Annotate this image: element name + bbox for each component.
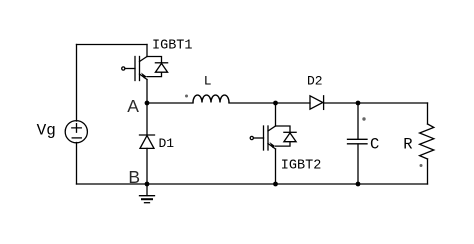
svg-text:A: A [127,96,139,116]
wire D2 to cap node [324,102,358,104]
svg-text:IGBT1: IGBT1 [152,39,193,54]
node junction dot IGBT2 top [273,101,278,106]
ground [140,184,155,203]
capacitor C [348,103,368,184]
transistor IGBT1 [122,45,168,104]
wire bottom rail [77,183,428,185]
svg-text:B: B [128,167,140,187]
svg-text:L: L [204,74,212,89]
svg-text:C: C [370,136,379,154]
wire node A to inductor [147,102,193,104]
inductor L [193,95,229,102]
node B junction dot [145,182,150,187]
transistor IGBT2 [250,103,296,184]
wire top rail from left rail to IGBT1 collector [77,44,148,46]
svg-text:R: R [403,135,412,153]
node junction dot C bottom [356,182,361,187]
node A junction dot [145,101,150,106]
wire left rail lower (Vg bottom to bottom rail) [76,143,78,185]
node junction dot IGBT2 bottom [273,182,278,187]
svg-text:D2: D2 [307,74,323,89]
wire inductor to D2 [229,102,310,104]
marker dot near L [185,95,188,98]
marker dot near R [420,164,423,167]
wire cap node to right rail [358,102,428,104]
svg-text:IGBT2: IGBT2 [281,159,322,174]
voltage source Vg [65,121,87,143]
svg-text:Vg: Vg [37,122,56,140]
diode D2 [310,96,324,110]
diode D1 [140,103,155,184]
svg-text:D1: D1 [159,136,175,151]
marker dot near C [362,117,365,120]
node junction dot C top [356,101,361,106]
wire left rail upper (Vg top to top rail) [76,45,78,122]
resistor R [420,103,434,184]
